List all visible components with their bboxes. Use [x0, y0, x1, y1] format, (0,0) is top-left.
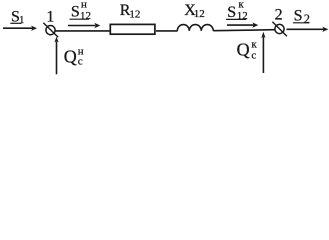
svg-text:12: 12	[237, 10, 248, 22]
svg-text:с: с	[251, 49, 256, 61]
svg-text:2: 2	[304, 12, 310, 26]
svg-text:12: 12	[80, 10, 91, 22]
svg-text:н: н	[78, 45, 84, 57]
svg-text:2: 2	[275, 6, 283, 23]
svg-text:Q: Q	[64, 47, 77, 67]
svg-text:12: 12	[129, 9, 140, 21]
svg-text:S: S	[227, 4, 236, 21]
svg-text:н: н	[81, 0, 87, 10]
svg-text:12: 12	[194, 8, 205, 20]
svg-text:S: S	[294, 7, 303, 24]
svg-text:1: 1	[19, 14, 25, 26]
svg-text:к: к	[238, 0, 244, 11]
svg-text:S: S	[71, 4, 80, 21]
svg-text:Q: Q	[237, 39, 250, 59]
svg-text:1: 1	[46, 8, 54, 25]
svg-text:к: к	[251, 39, 257, 51]
